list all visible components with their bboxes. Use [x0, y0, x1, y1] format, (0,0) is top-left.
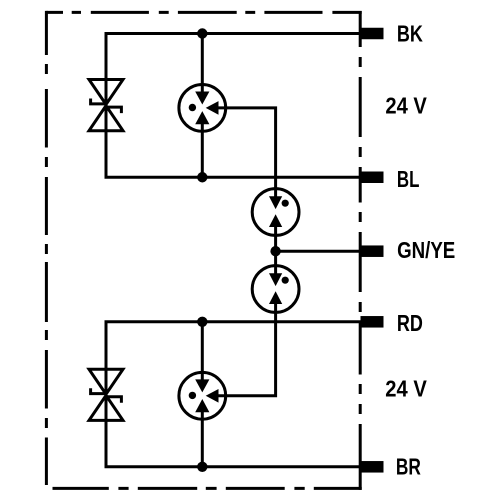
svg-text:BL: BL [397, 166, 420, 192]
terminal BK [361, 28, 384, 40]
junction node BK [197, 28, 207, 38]
gas discharge tube bottom-left [179, 372, 226, 419]
wire BK line, left drop and BL line [106, 34, 361, 178]
terminal RD [361, 316, 384, 328]
wire mid column between mid tubes [274, 227, 277, 274]
suppressor diode top [89, 80, 123, 131]
enclosure border right (dash-dot) [359, 11, 362, 490]
junction node GN/YE [270, 246, 280, 256]
suppressor diode bottom [89, 369, 123, 420]
svg-text:24 V: 24 V [385, 93, 427, 119]
enclosure border bottom (dash-dot) [53, 487, 362, 490]
gas discharge tube upper-middle [252, 189, 299, 236]
svg-text:BR: BR [396, 453, 421, 479]
terminal BL [361, 172, 384, 184]
wire GDT4 upper stem [201, 322, 204, 380]
svg-text:BK: BK [397, 21, 423, 47]
terminal BR [361, 461, 384, 473]
svg-text:24 V: 24 V [385, 376, 427, 402]
junction node BR [197, 462, 207, 472]
wire GDT1 upper stem [201, 34, 204, 93]
junction node RD [197, 317, 207, 327]
enclosure border left (dash-dot) [45, 11, 48, 485]
enclosure border top (dash-dot) [46, 11, 361, 14]
wire GDT4 lower stem [201, 411, 204, 467]
junction node BL [197, 172, 207, 182]
wire GN/YE line [276, 250, 361, 253]
wire GDT1 side electrode to mid column [219, 108, 276, 197]
gas discharge tube top-left [179, 85, 226, 132]
svg-text:RD: RD [397, 310, 423, 336]
wire GDT1 lower stem [201, 123, 204, 177]
svg-text:GN/YE: GN/YE [397, 237, 455, 263]
wire mid column lower run to bottom GDT [219, 304, 276, 396]
gas discharge tube lower-middle [252, 266, 299, 313]
terminal GN/YE [361, 245, 384, 257]
wire RD line, left drop and BR line [106, 322, 361, 467]
